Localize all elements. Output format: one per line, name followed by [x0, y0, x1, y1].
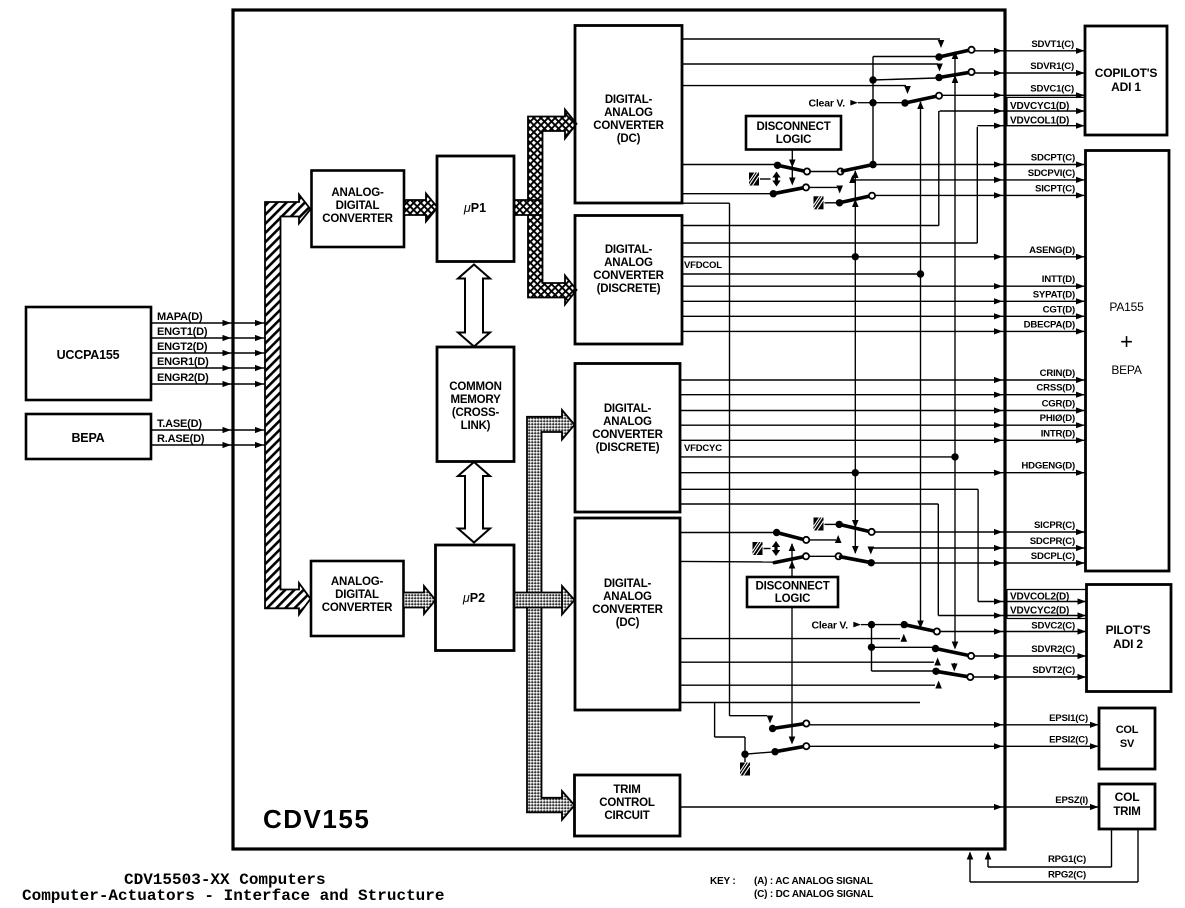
svg-text:(A) : AC ANALOG SIGNAL: (A) : AC ANALOG SIGNAL [754, 876, 873, 887]
arrow SDCPVI line end [849, 175, 856, 183]
svg-text:SDCPT(C): SDCPT(C) [1031, 153, 1075, 164]
svg-text:LOGIC: LOGIC [776, 134, 811, 146]
svg-text:ADI 1: ADI 1 [1111, 80, 1141, 94]
wire VFDCYC from DAC-DISC2, junction to long engage vertical [680, 456, 955, 458]
wire EPSI1(C) to COL SV [809, 724, 1099, 726]
label box around VDVCYC1/VDVCOL1 [1007, 97, 1085, 125]
switch SDVC2 [901, 621, 908, 628]
svg-text:μP1: μP1 [463, 201, 486, 215]
wire SYPAT(D) to PA155 [682, 300, 1085, 302]
wire Clear V distribution vertical (upper) [872, 57, 874, 165]
block COL SV [1099, 708, 1155, 769]
switch EPSI1 [769, 725, 776, 732]
svg-text:BEPA: BEPA [1111, 363, 1142, 377]
svg-text:ENGT1(D): ENGT1(D) [157, 326, 208, 338]
switch SDVT1 (relay contact) [935, 53, 942, 60]
block COPILOT'S ADI 1 [1085, 26, 1167, 135]
wire INTR(D) to PA155 [680, 439, 1085, 441]
wire SDCPVI(C) to PA155 [853, 179, 1086, 181]
switch SDCPL transfer contact [774, 557, 804, 563]
block PA155 + BEPA [1086, 151, 1170, 572]
wire input R.ASE(D) [151, 444, 265, 446]
wire SICPT(C) to PA155 [874, 194, 1085, 196]
wire HDGENG(D) to PA155 [680, 472, 1085, 474]
svg-text:SICPR(C): SICPR(C) [1034, 520, 1075, 531]
block DIGITAL-ANALOG CONVERTER (DISCRETE) lower [575, 364, 680, 513]
block UCCPA155 [26, 307, 151, 400]
bus open double-arrow common memory to uP2 [458, 462, 490, 543]
svg-text:ASENG(D): ASENG(D) [1029, 245, 1075, 256]
junction Clear V on SDCPT line [869, 161, 876, 168]
svg-text:VFDCYC: VFDCYC [684, 443, 722, 454]
svg-text:CRSS(D): CRSS(D) [1036, 383, 1075, 394]
wire SICPR(C) to PA155 [874, 531, 1085, 533]
block PILOT'S ADI 2 [1087, 585, 1172, 692]
svg-text:R.ASE(D): R.ASE(D) [157, 433, 205, 445]
wire disconnect logic (lower) actuation vertical up [791, 544, 793, 577]
svg-text:MEMORY: MEMORY [450, 394, 501, 406]
wire DAC-DC1 out to SDCPT switch [682, 164, 776, 166]
block ANALOG-DIGITAL CONVERTER (lower) [311, 561, 404, 636]
wire DAC-DC2 out to SDVT2 switch arm [680, 684, 935, 686]
svg-text:DIGITAL-: DIGITAL- [604, 403, 652, 415]
svg-text:DIGITAL-: DIGITAL- [605, 244, 653, 256]
svg-text:VDVCOL2(D): VDVCOL2(D) [1010, 591, 1069, 602]
switch SDVT2 [932, 668, 939, 675]
wire DAC-DC2 out to SDVC2 switch arm [680, 638, 900, 640]
svg-text:DIGITAL-: DIGITAL- [605, 94, 653, 106]
svg-text:ANALOG: ANALOG [604, 107, 653, 119]
svg-text:COMMON: COMMON [449, 381, 501, 393]
svg-text:DBECPA(D): DBECPA(D) [1024, 319, 1075, 330]
svg-text:Computer-Actuators - Interface: Computer-Actuators - Interface and Struc… [22, 887, 444, 903]
wire disconnect logic (upper) actuation vertical [791, 150, 793, 181]
junction on HDGENG line [852, 469, 859, 476]
wire input T.ASE(D) [151, 429, 265, 431]
junction Clear V upper 1 [869, 76, 876, 83]
wire CRIN(D) to PA155 [680, 379, 1085, 381]
svg-text:TRIM: TRIM [613, 784, 640, 796]
ground SDCPT cluster [749, 173, 759, 186]
wire CRSS(D) to PA155 [680, 394, 1085, 396]
svg-text:CONTROL: CONTROL [599, 797, 655, 809]
ground SICPT [814, 196, 824, 209]
svg-text:TRIM: TRIM [1113, 806, 1140, 818]
svg-text:BEPA: BEPA [71, 431, 104, 445]
junction VFDCOL [917, 270, 924, 277]
svg-text:RPG2(C): RPG2(C) [1048, 870, 1086, 881]
wire DAC-DC1 bottom output routed down to EPSI1 switch [682, 202, 730, 204]
bus open double-arrow uP1 to common memory [458, 265, 490, 347]
junction Clear V lower 1 [868, 621, 875, 628]
svg-text:DISCONNECT: DISCONNECT [756, 121, 830, 133]
svg-text:CDV155: CDV155 [263, 804, 370, 834]
svg-text:DIGITAL-: DIGITAL- [604, 578, 652, 590]
svg-text:COPILOT'S: COPILOT'S [1095, 66, 1158, 80]
svg-text:COL: COL [1115, 790, 1140, 804]
junction EPSI2 feed [741, 751, 748, 758]
svg-text:ANALOG: ANALOG [603, 416, 652, 428]
svg-text:SYPAT(D): SYPAT(D) [1033, 289, 1075, 300]
wire ASENG(D) from DAC discrete upper to PA155 [682, 256, 1085, 258]
wire input ENGR2(D) [151, 383, 265, 385]
svg-text:CONVERTER: CONVERTER [593, 120, 664, 132]
svg-text:(DC): (DC) [616, 617, 640, 629]
svg-text:SDVT1(C): SDVT1(C) [1031, 39, 1074, 50]
wire DAC-DC2 bottom output to EPSI switches [680, 702, 920, 704]
bus crosshatch stub uP1 right edge [514, 200, 542, 215]
wire input ENGR1(D) [151, 367, 265, 369]
svg-text:SDVR1(C): SDVR1(C) [1030, 61, 1074, 72]
wire Clear V distribution vertical (lower) [871, 625, 873, 671]
wire SDVC1(C) to ADI1 [941, 94, 1085, 96]
wire VDVCOL2(D) to ADI2 [978, 601, 1086, 603]
block DIGITAL-ANALOG CONVERTER (DISCRETE) upper [575, 216, 682, 345]
wire EPSZ(I) from trim control to COL TRIM [680, 806, 1099, 808]
wire input ENGT1(D) [151, 337, 265, 339]
junction on ASENG line [852, 253, 859, 260]
block uP1 [437, 156, 514, 262]
svg-text:(DISCRETE): (DISCRETE) [596, 442, 660, 454]
wire CGT(D) to PA155 [682, 315, 1085, 317]
svg-text:DIGITAL: DIGITAL [335, 589, 379, 601]
svg-text:CGT(D): CGT(D) [1043, 304, 1075, 315]
contact travel arrow SDCPT [772, 172, 780, 187]
wire disconnect logic (lower) actuation vertical down to EPSI2 switch [791, 607, 793, 739]
contact travel arrow SDCPL [772, 541, 780, 556]
svg-text:SDCPVI(C): SDCPVI(C) [1028, 168, 1075, 179]
svg-text:ENGR2(D): ENGR2(D) [157, 372, 209, 384]
svg-text:PA155: PA155 [1109, 300, 1144, 314]
wire input MAPA(D) [151, 322, 265, 324]
block BEPA (left) [26, 414, 151, 459]
svg-text:ADI 2: ADI 2 [1113, 637, 1143, 651]
svg-text:Clear V.: Clear V. [808, 98, 845, 110]
svg-text:CONVERTER: CONVERTER [592, 604, 663, 616]
svg-text:SDCPR(C): SDCPR(C) [1030, 536, 1075, 547]
svg-text:DIGITAL: DIGITAL [336, 200, 380, 212]
block uP2 [436, 545, 515, 651]
wire SDVC2(C) to ADI2 [940, 631, 1087, 633]
svg-text:INTT(D): INTT(D) [1042, 274, 1075, 285]
svg-text:SV: SV [1120, 738, 1135, 750]
wire VFDCOL engage vertical (SDVC1 up / SDVC2 down) [920, 102, 922, 625]
svg-text:ENGR1(D): ENGR1(D) [157, 356, 209, 368]
switch SDVC1 [901, 99, 908, 106]
wire PHI0(D) to PA155 [680, 424, 1085, 426]
wire DAC-DISC2 out routed down to VDVCYC2 [680, 503, 938, 505]
wire VDVCYC1(D) to ADI1 [940, 110, 1086, 112]
svg-text:SDVC1(C): SDVC1(C) [1030, 83, 1074, 94]
svg-text:EPSZ(I): EPSZ(I) [1055, 795, 1088, 806]
wire engage vertical upper cluster (ASENG/HDGENG to switches) [854, 171, 856, 553]
switch SICPR lower moving contact [773, 529, 780, 536]
wire SDVT2(C) to ADI2 [973, 676, 1087, 678]
wire SDCPR(C) to PA155 [869, 547, 1085, 549]
svg-text:SDVC2(C): SDVC2(C) [1031, 620, 1075, 631]
junction Clear V upper 2 [869, 99, 876, 106]
wire RPG2(C) from COL TRIM bottom to enclosure [1137, 829, 1139, 882]
svg-text:+: + [1120, 329, 1133, 354]
svg-text:CONVERTER: CONVERTER [593, 270, 664, 282]
wire CGR(D) to PA155 [680, 410, 1085, 412]
svg-text:ANALOG-: ANALOG- [331, 187, 384, 199]
bus crosshatch ADC1 to uP1 [404, 194, 438, 222]
svg-text:UCCPA155: UCCPA155 [57, 348, 120, 362]
svg-text:MAPA(D): MAPA(D) [157, 311, 203, 323]
svg-text:SDCPL(C): SDCPL(C) [1031, 551, 1075, 562]
svg-text:(DC): (DC) [617, 133, 641, 145]
wire DAC-DC2 out to SICPR contact [680, 532, 775, 534]
wire engage stub at SDVT2 switch [953, 663, 955, 667]
svg-text:INTR(D): INTR(D) [1041, 428, 1075, 439]
ground SDCPL cluster [753, 542, 763, 555]
svg-text:VDVCYC2(D): VDVCYC2(D) [1010, 605, 1069, 616]
wire EPSI2(C) to COL SV [809, 745, 1099, 747]
wire INTT(D) to PA155 [682, 285, 1085, 287]
wire SDCPL(C) to PA155 [871, 562, 1085, 564]
arrow SDCPR line end [868, 547, 875, 555]
svg-text:ENGT2(D): ENGT2(D) [157, 341, 208, 353]
wire VFDCOL from DAC-DISC1, junction to vertical engage line [682, 273, 921, 275]
block DISCONNECT LOGIC (upper) [746, 116, 841, 150]
wire DAC-DC2 out to SDVR2 switch arm [680, 661, 934, 663]
svg-text:CONVERTER: CONVERTER [322, 213, 393, 225]
wire DAC-DC1 out to SDCPVI contact [682, 193, 772, 195]
svg-text:Clear V.: Clear V. [811, 620, 848, 632]
junction VFDCYC [951, 453, 958, 460]
switch EPSI2 [771, 748, 778, 755]
bus stippled uP2 trunk to D-A converters and trim control [527, 410, 575, 820]
ground EPSI cluster [740, 763, 750, 776]
bus stippled ADC2 to uP2 [404, 586, 436, 614]
block DIGITAL-ANALOG CONVERTER (DC) lower [575, 518, 680, 710]
block COL TRIM [1099, 784, 1155, 829]
wire input ENGT2(D) [151, 352, 265, 354]
wire VDVCYC2(D) to ADI2 [938, 615, 1086, 617]
label box around VDVCOL2/VDVCYC2 [1007, 590, 1087, 619]
switch SDCPT transfer contact [774, 162, 781, 169]
bus stippled arm uP2 through trunk into DAC DC lower [514, 593, 562, 608]
svg-text:CRIN(D): CRIN(D) [1040, 368, 1075, 379]
svg-text:DISCONNECT: DISCONNECT [755, 581, 829, 593]
wire DAC-DISC1 out routed up to VDVCYC1 [682, 225, 939, 227]
wire VFDCYC long engage vertical (SDVT/SDVR switches) [954, 52, 956, 646]
svg-text:CIRCUIT: CIRCUIT [604, 810, 649, 822]
wire DAC-DC1 out to SDVT1 switch [682, 38, 940, 40]
svg-text:(C) : DC ANALOG SIGNAL: (C) : DC ANALOG SIGNAL [754, 889, 873, 900]
svg-text:(CROSS-: (CROSS- [452, 407, 500, 419]
wire DAC-DISC2 out routed down to VDVCOL2 [680, 488, 978, 490]
svg-text:VDVCOL1(D): VDVCOL1(D) [1010, 116, 1069, 127]
wire SDCPT(C) to PA155 [873, 164, 1085, 166]
svg-text:CONVERTER: CONVERTER [322, 602, 393, 614]
block TRIM CONTROL CIRCUIT [575, 775, 681, 836]
svg-text:CGR(D): CGR(D) [1042, 399, 1075, 410]
block COMMON MEMORY (CROSS-LINK) [437, 347, 514, 462]
svg-text:EPSI2(C): EPSI2(C) [1049, 734, 1088, 745]
svg-text:ANALOG: ANALOG [603, 591, 652, 603]
junction Clear V lower 2 [868, 644, 875, 651]
block DIGITAL-ANALOG CONVERTER (DC) upper [575, 26, 682, 204]
switch SDVR2 [932, 645, 939, 652]
ground SICPR [814, 518, 824, 531]
enclosure CDV155 outer box [233, 10, 1005, 849]
svg-text:EPSI1(C): EPSI1(C) [1049, 713, 1088, 724]
bus hatched analog input trunk with arrows into A-D converters [265, 195, 311, 615]
wire DAC-DC2 out to SDCPL switch [680, 560, 774, 563]
svg-text:RPG1(C): RPG1(C) [1048, 854, 1086, 865]
svg-text:μP2: μP2 [462, 591, 485, 605]
svg-text:CONVERTER: CONVERTER [592, 429, 663, 441]
svg-text:(DISCRETE): (DISCRETE) [597, 283, 661, 295]
svg-text:LINK): LINK) [461, 420, 491, 432]
svg-text:PHIØ(D): PHIØ(D) [1040, 413, 1075, 424]
svg-text:PILOT'S: PILOT'S [1106, 623, 1151, 637]
svg-text:VDVCYC1(D): VDVCYC1(D) [1010, 101, 1069, 112]
svg-text:T.ASE(D): T.ASE(D) [157, 418, 202, 430]
svg-text:KEY :: KEY : [710, 876, 736, 887]
svg-text:SDVT2(C): SDVT2(C) [1032, 665, 1075, 676]
switch SDCPVI moving contact [770, 190, 777, 197]
wire DAC-DC1 out to SDVC1 switch [682, 85, 906, 87]
wire RPG1(C) from COL TRIM bottom to enclosure [1111, 829, 1113, 867]
wire DAC-DISC1 out routed up to VDVCOL1 (vertical also joins VFDCYC) [682, 242, 977, 244]
svg-text:VFDCOL: VFDCOL [684, 260, 722, 271]
switch SDVR1 [935, 74, 942, 81]
block DISCONNECT LOGIC (lower) [747, 577, 838, 607]
svg-text:HDGENG(D): HDGENG(D) [1021, 461, 1075, 472]
bus crosshatch uP1 to D-A converters trunk [528, 110, 577, 305]
block ANALOG-DIGITAL CONVERTER (upper) [312, 171, 405, 248]
svg-text:ANALOG: ANALOG [604, 257, 653, 269]
svg-text:COL: COL [1116, 724, 1139, 736]
wire DBECPA(D) to PA155 [682, 330, 1085, 332]
wire SDVR1(C) to ADI1 [974, 72, 1085, 74]
svg-text:ANALOG-: ANALOG- [331, 576, 384, 588]
wire DAC-DC1 out to SDVR1 switch [682, 63, 938, 65]
wire SDVT1(C) to ADI1 [974, 50, 1085, 52]
wire SDVR2(C) to ADI2 [974, 655, 1087, 657]
wire VDVCOL1(D) to ADI1 [977, 125, 1085, 127]
svg-text:SDVR2(C): SDVR2(C) [1031, 644, 1075, 655]
svg-text:LOGIC: LOGIC [775, 593, 810, 605]
svg-text:SICPT(C): SICPT(C) [1035, 183, 1075, 194]
